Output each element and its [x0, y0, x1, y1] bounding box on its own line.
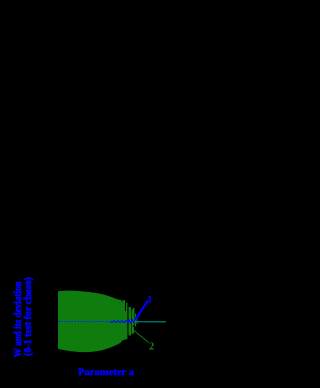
teal reference line (period-1 branch)	[58, 321, 166, 322]
green chaotic band (bifurcation diagram body)	[58, 291, 122, 352]
solid central core of taper	[121, 302, 128, 341]
blue arrow pointing to period-1 branch	[137, 301, 148, 318]
top cap sliver restoring upper edge	[122, 300, 125, 303]
period-doubling stripes (vertical green bars)	[128, 307, 137, 336]
svg-text:Parameter a: Parameter a	[78, 368, 134, 378]
svg-text:1: 1	[147, 294, 152, 305]
blue W-statistic wavy line	[58, 320, 110, 322]
black slit (periodic window) in core	[124, 302, 127, 311]
svg-text:2: 2	[149, 342, 154, 353]
arrowhead	[133, 315, 139, 322]
green pointer line to label 2	[133, 330, 149, 343]
svg-text:(0-1 test for chaos): (0-1 test for chaos)	[22, 277, 34, 356]
